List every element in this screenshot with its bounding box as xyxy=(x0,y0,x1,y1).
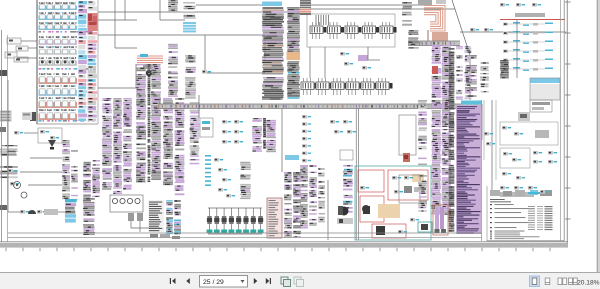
connector U8 xyxy=(343,165,353,213)
wire Y4 xyxy=(327,180,329,240)
cyan rows K3 xyxy=(183,22,196,32)
harness core xyxy=(148,64,151,182)
module box T1 xyxy=(200,118,213,137)
connector Y2 xyxy=(284,172,292,238)
mid row T3 xyxy=(222,130,243,134)
connector Z4 xyxy=(418,100,427,141)
cyan label column xyxy=(205,155,211,186)
box U4 xyxy=(340,150,353,160)
wire red feed xyxy=(500,19,565,21)
pin column upper A xyxy=(456,46,463,100)
wire E2 xyxy=(98,87,136,89)
wire stub bundle xyxy=(316,15,329,25)
wire W5b xyxy=(130,221,132,228)
valve solenoid row A xyxy=(310,22,397,39)
connector Q1 xyxy=(62,140,70,199)
module box AA1 xyxy=(530,100,552,112)
fuse row xyxy=(39,109,78,120)
fuse row xyxy=(39,46,78,55)
comp Z12 xyxy=(484,132,495,146)
frame AA5 xyxy=(500,148,530,168)
panel header text xyxy=(39,68,96,70)
right row R0 xyxy=(500,3,541,7)
valve solenoid row B xyxy=(301,78,393,95)
pink list table Y1 xyxy=(267,198,282,238)
wire T10 xyxy=(281,109,283,172)
wire E7 xyxy=(367,47,369,60)
empty box Z1 xyxy=(399,115,416,155)
connector T5 xyxy=(252,118,262,152)
connector W4 xyxy=(174,200,181,234)
fuse row xyxy=(39,57,78,66)
page right edge xyxy=(566,0,568,246)
wire row top xyxy=(310,4,430,6)
next-view button (disabled) xyxy=(294,277,304,287)
notes text xyxy=(490,199,511,202)
harness line pair xyxy=(355,108,357,240)
sensor circle S1 xyxy=(14,182,21,189)
svg-text:25 / 29: 25 / 29 xyxy=(203,279,224,286)
sheet inner bottom border xyxy=(8,232,483,234)
harness column H2 xyxy=(151,64,161,180)
vertical wire right xyxy=(516,20,518,78)
main connector table M3 xyxy=(287,61,300,99)
relay W1 xyxy=(128,213,134,221)
orange block xyxy=(287,52,301,60)
connector P1 xyxy=(0,110,12,122)
valve manifold frame A xyxy=(307,14,395,47)
fuse row xyxy=(39,22,78,30)
wire W3 xyxy=(114,0,116,48)
wire Z11 xyxy=(491,100,493,195)
aircon unit frame (teal) xyxy=(355,166,431,240)
fuse row xyxy=(39,12,78,20)
zone label 21 xyxy=(30,112,36,121)
red boxed relay RB4 xyxy=(372,224,406,238)
panel connector column B xyxy=(88,1,98,11)
connector column J6 xyxy=(190,102,200,164)
connector T5b xyxy=(263,118,266,149)
relay box P4 xyxy=(38,128,62,143)
bus under bundle xyxy=(408,41,460,46)
scrollbar track xyxy=(597,0,600,272)
sheet left border xyxy=(1,30,3,242)
last-page button xyxy=(266,278,271,284)
page bottom edge xyxy=(0,241,568,243)
terminal box (4 circles) xyxy=(110,195,143,212)
connector Q2 xyxy=(71,150,78,200)
page bottom ticks xyxy=(6,248,550,252)
connector P2 xyxy=(22,112,32,120)
red boxed relay RB3 xyxy=(360,196,384,222)
dark comp V1 xyxy=(363,206,370,214)
right row R1 xyxy=(503,22,553,26)
fuse row xyxy=(39,2,78,10)
relay RB5 xyxy=(404,186,412,193)
component T7 xyxy=(214,158,231,182)
svg-text:20.18%: 20.18% xyxy=(577,279,600,286)
main connector table M1 xyxy=(262,7,284,100)
fuse-relay panel PNL1 xyxy=(37,0,98,124)
text table W2 xyxy=(148,200,164,232)
wire W4 xyxy=(159,0,161,20)
bus riser xyxy=(159,98,161,104)
horn symbol xyxy=(48,140,56,147)
facing layout button xyxy=(558,278,567,285)
tan box xyxy=(412,174,424,182)
harness column H1 xyxy=(136,64,146,182)
ECU pin column Z8 xyxy=(449,48,455,232)
row AA10 xyxy=(500,186,537,190)
small blocks W6 xyxy=(150,234,180,239)
connector column J1 xyxy=(102,98,112,190)
mid row T4 xyxy=(222,140,243,144)
wire W6 xyxy=(264,35,266,60)
panel connector column A xyxy=(78,1,87,121)
box Z3 xyxy=(399,175,420,203)
right row R6 xyxy=(503,67,553,71)
connector R7 xyxy=(500,60,509,78)
facing-continuous layout button xyxy=(569,278,578,285)
sensor circle S2 xyxy=(21,192,27,198)
legend table xyxy=(528,206,553,230)
connector column J2 xyxy=(113,98,122,194)
block above bundle xyxy=(418,0,432,5)
injector ladder xyxy=(207,208,264,234)
connector U5 xyxy=(300,165,308,229)
connector column J4 xyxy=(163,98,173,185)
connector N3 xyxy=(465,55,477,97)
blower motor xyxy=(340,207,349,216)
bus bar right xyxy=(515,13,545,17)
wire W1 xyxy=(98,11,310,13)
row AA11 xyxy=(500,190,552,197)
fuse row xyxy=(39,73,78,84)
row U3 xyxy=(334,130,356,134)
right row R2 xyxy=(503,31,553,35)
connector K2 xyxy=(183,2,196,19)
connector N0 xyxy=(402,2,412,26)
teal box Z9 xyxy=(418,222,432,232)
right row R4 xyxy=(503,49,553,53)
notes bottom border xyxy=(487,240,564,242)
continuous layout button xyxy=(545,278,550,285)
notes right border xyxy=(560,0,562,241)
red fleck on ECU column xyxy=(432,66,438,74)
comp AA6 xyxy=(503,152,521,162)
ECU pin column Z6 xyxy=(432,45,441,214)
wire E5 xyxy=(483,100,485,160)
prev-page button xyxy=(186,278,190,284)
connector column J3 xyxy=(123,98,132,190)
main harness bus B1 xyxy=(158,104,482,109)
page right ticks xyxy=(565,2,571,219)
row AA7 xyxy=(533,151,557,155)
panel connector column C xyxy=(88,32,98,121)
pin column upper B xyxy=(465,46,472,99)
left frame block F3 xyxy=(0,205,7,210)
fuse row xyxy=(39,36,78,45)
notes list xyxy=(490,204,534,232)
connector column J5 xyxy=(175,98,185,195)
wire E6 xyxy=(309,47,311,78)
mid row T2 xyxy=(222,120,243,124)
cyan cap on ECU map xyxy=(461,101,482,105)
red boxed relay RB2 xyxy=(388,170,428,200)
row AA8 xyxy=(533,160,557,164)
connector N1 xyxy=(408,30,419,49)
status toolbar xyxy=(0,273,600,289)
dark comp V2 xyxy=(376,226,385,235)
component T9 xyxy=(218,188,235,198)
wire W5 xyxy=(204,35,206,73)
wire W2 xyxy=(98,34,265,36)
lamp row X1 xyxy=(8,209,65,215)
right row R5 xyxy=(503,58,553,62)
resistor pack xyxy=(337,218,353,224)
tan box2 xyxy=(378,204,400,218)
frame AA3 xyxy=(500,122,558,145)
component W5c xyxy=(202,70,211,74)
connector P5 xyxy=(0,145,18,156)
page bottom shadow xyxy=(0,243,568,248)
wire P8 xyxy=(20,171,62,173)
wire long diagonal xyxy=(452,0,470,55)
connector N4 xyxy=(480,62,489,92)
cyan cap T11 xyxy=(285,155,299,160)
component P3 xyxy=(14,131,38,135)
right row R3 xyxy=(503,40,553,44)
junction X1 xyxy=(146,70,152,76)
left frame block F1 xyxy=(0,70,7,76)
connector K1 xyxy=(168,0,178,11)
prev-view button xyxy=(281,277,291,287)
scatter components center xyxy=(340,52,371,70)
salmon box Z10 xyxy=(433,205,448,235)
connector T6 xyxy=(266,120,276,152)
connector Q3 xyxy=(83,162,91,202)
notes dense bottom xyxy=(490,233,540,240)
fuse row xyxy=(39,97,78,108)
table top stub xyxy=(300,0,311,15)
connector U6 xyxy=(309,165,317,226)
next-page button xyxy=(254,278,257,284)
compressor motor xyxy=(362,205,370,213)
left frame block F2 xyxy=(0,127,6,132)
red boxed relay RB1 xyxy=(358,170,384,192)
connector P6 xyxy=(0,166,18,178)
divider to notes xyxy=(481,100,483,241)
comp AA4 xyxy=(502,126,549,138)
connector X3 xyxy=(83,198,95,235)
connector Z5 xyxy=(418,142,427,212)
wire E4 xyxy=(198,95,200,118)
component P7 xyxy=(8,169,19,186)
main connector table M2 xyxy=(287,7,300,52)
right block R8 xyxy=(530,78,560,100)
connector K4 xyxy=(168,44,178,97)
single-page layout button (active) xyxy=(530,276,540,287)
ECU pin column Z7 xyxy=(442,45,451,215)
connector U7 xyxy=(318,168,325,222)
fuse row xyxy=(39,85,78,96)
notes top components xyxy=(490,190,549,196)
page number box xyxy=(200,276,248,288)
wire X4 xyxy=(7,80,9,212)
comp scatter V3 xyxy=(360,176,419,234)
comp AA9 xyxy=(502,172,525,180)
wire E1 xyxy=(98,19,137,21)
panel header text xyxy=(39,31,93,33)
cab harness bundle (salmon) xyxy=(424,6,452,45)
ECU connector map xyxy=(456,105,481,234)
first-page button xyxy=(170,278,176,284)
connector W3 xyxy=(166,200,173,234)
cyan cap xyxy=(262,2,282,7)
connector K5 xyxy=(185,55,196,99)
bundle cap xyxy=(143,64,155,69)
wire right top xyxy=(460,31,566,33)
row N2 xyxy=(470,28,493,32)
power feed bus (salmon) xyxy=(137,54,163,63)
switch cluster SW1 xyxy=(5,38,37,62)
red comp Z2 xyxy=(403,153,410,162)
connector Y3 xyxy=(293,172,301,238)
row U2 xyxy=(330,120,352,124)
block AA2 xyxy=(518,112,530,121)
connector Q4 xyxy=(92,160,100,197)
connector X2 stack xyxy=(65,199,77,223)
sensor column U1 xyxy=(302,115,311,162)
wire E3 xyxy=(196,4,262,6)
connector T8 xyxy=(240,162,251,199)
relay block (red) xyxy=(88,13,98,31)
panel header text xyxy=(39,120,95,122)
